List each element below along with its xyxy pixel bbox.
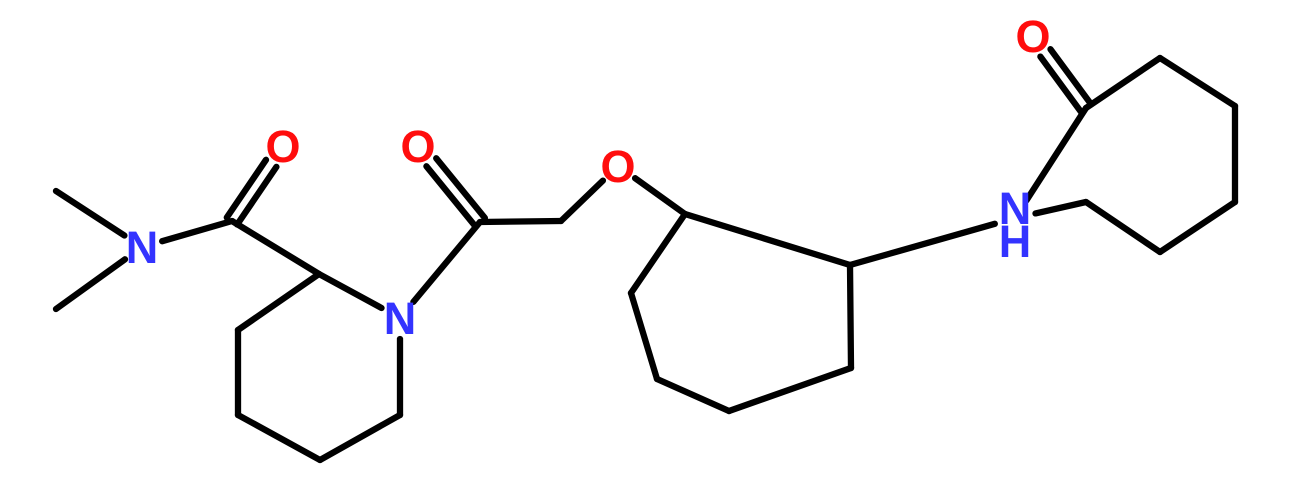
double bond C1=O1	[237, 167, 276, 225]
ring bond A-F	[631, 214, 685, 293]
ring bond Ce-Cd	[235, 330, 241, 415]
svg-text:N: N	[384, 293, 417, 344]
ring bond V1-V2	[1086, 58, 1160, 108]
double bond C2=O2	[436, 158, 485, 218]
bond C1-C3 C1-C3	[232, 221, 319, 274]
ring bond V5-V6	[1086, 202, 1160, 252]
bond C2-CH2 C2-CH2b	[480, 221, 561, 222]
svg-text:O: O	[400, 121, 435, 172]
svg-text:H: H	[999, 216, 1032, 267]
bond C3-N2 C3-N2	[319, 274, 382, 308]
ring bond E-D	[657, 379, 729, 411]
bond ring-NH B-N3	[850, 224, 995, 265]
bond N-methyl N1-Me2	[56, 259, 125, 309]
bond N-methyl N1-Me1	[56, 191, 124, 236]
ring bond V3-V4	[1232, 106, 1238, 202]
ring bond C3-Ce	[238, 274, 319, 330]
svg-text:O: O	[265, 121, 300, 172]
ring bond Cc-Cb	[320, 415, 400, 460]
ring bond A-B	[685, 214, 850, 265]
svg-text:O: O	[600, 141, 635, 192]
double bond V1=O4	[1051, 49, 1092, 104]
svg-text:N: N	[126, 222, 159, 273]
bond N2-C2 N2-C2	[413, 222, 480, 302]
ring bond Cd-Cc	[238, 415, 320, 460]
ring bond C-B	[850, 265, 851, 368]
svg-text:O: O	[1015, 11, 1050, 62]
ring bond V2-V3	[1160, 58, 1235, 106]
ring bond Cb-N2	[397, 339, 403, 415]
ring bond D-C	[729, 368, 851, 411]
ring bond V4-V5	[1160, 202, 1235, 252]
bond CH2-O CH2b-O3	[561, 181, 603, 221]
bond O-ring O3-A	[635, 178, 685, 214]
ring bond F-E	[631, 293, 657, 379]
bond NH-C=O N3-V1	[1026, 108, 1086, 200]
bond N1-C1 N1-C1	[162, 221, 232, 241]
ring bond to NH V6-N3	[1036, 202, 1087, 213]
